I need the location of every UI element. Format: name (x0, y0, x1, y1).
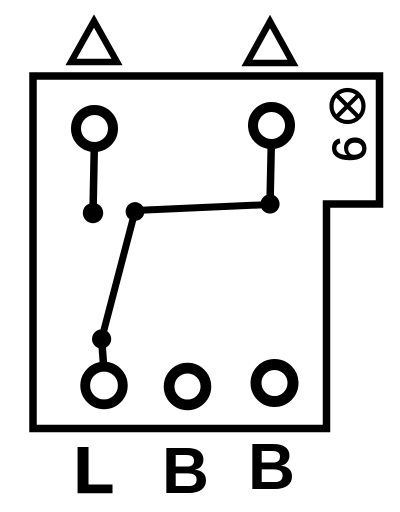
wire: node D to terminal L (102, 339, 104, 364)
wire: top-right terminal to node C (270, 144, 271, 204)
node B (dot) (126, 202, 145, 221)
wire: top-left terminal to node A (93, 147, 94, 213)
triangle marker (left) (71, 21, 117, 62)
node C (dot) (260, 194, 279, 213)
terminal top-right (253, 107, 290, 144)
switch body outline (33, 76, 380, 429)
triangle marker (right) (247, 22, 293, 64)
terminal top-left (76, 110, 113, 147)
svg-text:B: B (162, 434, 209, 507)
node D (dot) (92, 329, 111, 348)
wire: node B to node C (135, 205, 270, 211)
node A (dot) (83, 203, 103, 223)
lamp symbol U1 (332, 90, 364, 122)
terminal L (bottom-left) (85, 367, 123, 405)
svg-text:L: L (74, 434, 114, 507)
terminal B right (bottom) (256, 365, 293, 402)
terminal B middle (bottom) (169, 368, 206, 405)
svg-text:6: 6 (323, 136, 376, 162)
svg-text:B: B (248, 430, 295, 503)
switch contact arm (diagonal wire) (102, 212, 135, 340)
